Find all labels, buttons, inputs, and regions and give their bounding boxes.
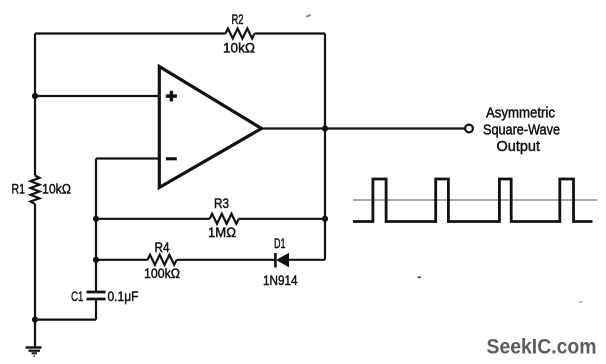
node junction mid vertical with R4 rail <box>93 257 99 263</box>
wire bottom horizontal <box>35 319 96 321</box>
svg-text:Square-Wave: Square-Wave <box>483 123 560 139</box>
wire from C1 bottom plate down <box>95 299 97 320</box>
wire R4 rail middle segment to diode <box>177 259 276 261</box>
op-amp plus sign <box>166 91 177 102</box>
svg-text:10kΩ: 10kΩ <box>223 40 255 56</box>
svg-text:D1: D1 <box>274 236 286 252</box>
svg-text:R3: R3 <box>214 196 229 212</box>
wire R4 rail left segment <box>96 259 148 261</box>
diode D1 triangle <box>277 254 289 267</box>
op-amp U1 <box>159 67 261 188</box>
wire inverting input <box>96 157 159 159</box>
diode D1 cathode bar <box>274 253 277 268</box>
svg-text:Asymmetric: Asymmetric <box>486 105 555 121</box>
scan speck mid page <box>418 276 421 278</box>
svg-text:R2: R2 <box>232 12 244 28</box>
waveform square wave <box>353 179 593 222</box>
svg-text:Output: Output <box>497 139 541 155</box>
svg-text:R4: R4 <box>155 240 170 256</box>
capacitor C1 bottom plate <box>87 298 106 301</box>
scan speck above watermark <box>578 301 582 303</box>
wire left vertical upper segment <box>34 34 36 176</box>
svg-text:1N914: 1N914 <box>263 273 298 289</box>
wire top from left corner to R2 <box>35 32 226 34</box>
resistor R2 <box>226 29 255 39</box>
svg-text:100kΩ: 100kΩ <box>144 266 180 282</box>
svg-text:C1: C1 <box>71 289 84 305</box>
ground <box>26 348 42 357</box>
label Asymmetric Square-Wave Output <box>483 105 560 155</box>
svg-text:R1: R1 <box>12 181 26 197</box>
node junction right vertical with R3 rail <box>322 216 328 222</box>
capacitor C1 top plate <box>87 291 106 294</box>
op-amp minus sign <box>166 157 177 160</box>
svg-text:0.1μF: 0.1μF <box>108 289 139 305</box>
wire left vertical lower segment to ground <box>34 204 36 347</box>
resistor R1 <box>31 176 40 205</box>
wire R3 rail right segment <box>239 218 325 220</box>
svg-text:SeekIC.com: SeekIC.com <box>487 336 597 359</box>
wire R4 rail right segment from diode to right vertical <box>289 259 326 261</box>
wire mid vertical from inverting input down to C1 <box>95 159 97 292</box>
svg-text:1MΩ: 1MΩ <box>208 225 236 241</box>
node output junction <box>322 125 328 131</box>
wire right vertical from top corner down to R4/D1 rail <box>324 34 326 260</box>
wire R3 rail left segment <box>96 218 210 220</box>
waveform axis thin line <box>353 199 597 201</box>
wire noninverting input <box>35 95 159 97</box>
svg-text:10kΩ: 10kΩ <box>42 182 71 198</box>
node junction left vertical with + input <box>32 93 38 99</box>
scan speck near top right <box>306 14 311 18</box>
node junction mid vertical with R3 rail <box>93 216 99 222</box>
wire top from R2 to right corner <box>255 32 326 34</box>
output terminal open circle <box>465 125 473 133</box>
resistor R4 <box>148 255 177 265</box>
resistor R3 <box>210 214 239 224</box>
wire output from op-amp to terminal <box>262 127 466 129</box>
node junction left vertical with bottom wire <box>32 317 38 323</box>
